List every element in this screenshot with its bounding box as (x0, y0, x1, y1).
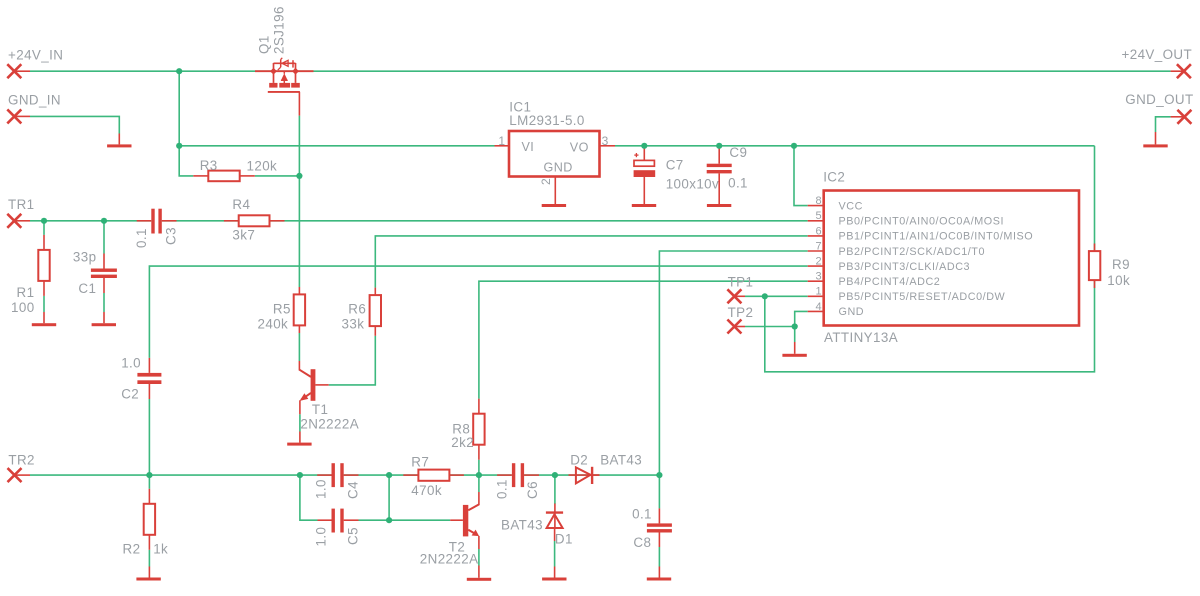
transistor T2 2N2222A npn (420, 492, 479, 578)
wire VCC branch to IC2 pin8 (794, 146, 808, 206)
wire IC2 PB3 row to C2 (149, 266, 807, 358)
wire 5V rail down to R9 top (1094, 146, 1096, 251)
ground IC1 pin2 (542, 204, 566, 207)
svg-text:TP1: TP1 (728, 275, 754, 290)
svg-text:PB3/PCINT3/CLKI/ADC3: PB3/PCINT3/CLKI/ADC3 (839, 261, 971, 273)
diode D1 BAT43 (501, 504, 573, 578)
svg-text:TP2: TP2 (728, 305, 754, 320)
terminal +24V_IN (7, 48, 63, 79)
svg-text:0.1: 0.1 (495, 479, 510, 499)
wire C1 column (103, 221, 105, 254)
svg-text:2: 2 (539, 178, 553, 185)
svg-text:2k2: 2k2 (451, 435, 474, 450)
svg-text:2SJ196: 2SJ196 (271, 6, 286, 54)
wire IC2 GND pin down (795, 311, 808, 342)
ground T1 emitter (287, 443, 311, 446)
capacitor C6 0.1 (495, 463, 541, 499)
svg-text:33k: 33k (342, 317, 365, 332)
svg-text:TR2: TR2 (8, 453, 35, 468)
ground C1 (92, 323, 116, 326)
resistor R5 240k (258, 287, 306, 333)
resistor R3 120k (193, 158, 277, 181)
wire T1 emitter (299, 414, 301, 431)
transistor T1 2N2222A npn (299, 361, 359, 443)
svg-text:120k: 120k (247, 159, 278, 174)
svg-text:C2: C2 (121, 387, 139, 402)
svg-text:Q1: Q1 (256, 35, 271, 54)
svg-text:C9: C9 (729, 145, 747, 160)
svg-text:33p: 33p (73, 250, 97, 265)
svg-text:PB1/PCINT1/AIN1/OC0B/INT0/MISO: PB1/PCINT1/AIN1/OC0B/INT0/MISO (839, 231, 1034, 243)
ground C7 (632, 204, 656, 207)
svg-text:+24V_IN: +24V_IN (8, 48, 63, 63)
pin 5 IC2 PB0/PCINT0/AIN0/OC0A/MOSI (808, 210, 1004, 227)
svg-text:3k7: 3k7 (232, 228, 255, 243)
wire 5V rail IC1 VO to corner (615, 145, 1095, 147)
ground GND_OUT (1143, 132, 1167, 147)
pin 1 IC1 VI (495, 134, 510, 148)
svg-text:6: 6 (815, 225, 822, 237)
svg-text:PB5/PCINT5/RESET/ADC0/DW: PB5/PCINT5/RESET/ADC0/DW (839, 291, 1006, 303)
svg-text:470k: 470k (411, 483, 442, 498)
svg-text:C1: C1 (78, 281, 96, 296)
resistor R6 33k (342, 288, 382, 336)
ground R2 (136, 578, 160, 581)
wire T2 collector (478, 475, 480, 492)
svg-text:0.1: 0.1 (728, 176, 748, 191)
svg-text:LM2931-5.0: LM2931-5.0 (509, 113, 584, 128)
wire gate node column (298, 116, 300, 287)
ground C9 (707, 204, 731, 207)
svg-text:BAT43: BAT43 (501, 517, 543, 532)
wire R3 branch (179, 146, 193, 176)
svg-text:T1: T1 (312, 402, 328, 417)
svg-text:240k: 240k (258, 317, 289, 332)
pin 7 IC2 PB2/PCINT2/SCK/ADC1/T0 (808, 240, 985, 257)
pin 1 IC2 PB5/PCINT5/RESET/ADC0/DW (808, 286, 1006, 303)
svg-text:1k: 1k (153, 542, 168, 557)
wire R5 bottom to T1 collector (298, 333, 300, 361)
terminal TR1 (7, 197, 34, 228)
wire D1 column (554, 475, 556, 504)
svg-text:1: 1 (498, 134, 505, 148)
wire C5 to T2 base (359, 519, 451, 521)
pin 8 IC2 VCC (808, 195, 863, 212)
op-amp IC2 ATTINY13A (823, 170, 1079, 346)
svg-text:0.1: 0.1 (134, 228, 149, 248)
pin 4 IC2 GND (808, 301, 864, 318)
ground C8 (647, 578, 671, 581)
svg-text:C8: C8 (633, 535, 651, 550)
capacitor C3 0.1 (134, 209, 179, 248)
wire R2 column (148, 475, 150, 489)
resistor R1 100 (11, 235, 50, 323)
pin 2 IC2 PB3/PCINT3/CLKI/ADC3 (808, 256, 970, 273)
svg-text:1.0: 1.0 (314, 527, 329, 547)
wire T2 emitter (478, 549, 480, 566)
pin 3 IC2 PB4/PCINT4/ADC2 (808, 271, 941, 288)
ground D1 (542, 578, 566, 581)
terminal TR2 (8, 453, 35, 483)
svg-text:8: 8 (815, 195, 822, 207)
wire +24V top rail (30, 70, 1171, 72)
capacitor C5 1.0 (314, 509, 361, 547)
capacitor C7 100x10v electrolytic (634, 146, 720, 204)
wire C4-C5 link x=389 (388, 475, 390, 520)
svg-text:BAT43: BAT43 (600, 453, 642, 468)
svg-text:C3: C3 (164, 227, 179, 245)
svg-text:PB0/PCINT0/AIN0/OC0A/MOSI: PB0/PCINT0/AIN0/OC0A/MOSI (839, 216, 1005, 228)
ground R1 (32, 323, 56, 326)
wire R3 to gate node (255, 175, 300, 177)
wire R6 bottom to T1 base (329, 336, 376, 385)
capacitor C2 1.0 (121, 356, 161, 402)
transistor Q1 2SJ196 p-mosfet (255, 6, 314, 115)
svg-text:R7: R7 (411, 455, 429, 470)
wire TR2 row (30, 474, 659, 476)
wire TR1 row to IC2 PB0 (30, 220, 808, 222)
wire IC2 PB2 row to D2/C8 node (659, 251, 807, 475)
wire +24V branch down x=179 (178, 71, 180, 146)
capacitor C1 33p (73, 250, 117, 324)
wire rail to IC1 VI (179, 145, 494, 147)
svg-text:GND: GND (544, 160, 573, 174)
terminal +24V_OUT (1122, 47, 1193, 78)
svg-text:R4: R4 (232, 197, 250, 212)
op-amp U-reg IC1 LM2931-5.0 (509, 100, 600, 177)
svg-text:100x10v: 100x10v (666, 177, 719, 192)
resistor R8 2k2 (451, 399, 484, 460)
diode D2 BAT43 (569, 453, 643, 485)
svg-text:GND_OUT: GND_OUT (1125, 92, 1193, 107)
svg-text:IC2: IC2 (823, 170, 845, 185)
wire R9 bottom loop (765, 280, 1095, 372)
svg-text:0.1: 0.1 (632, 507, 652, 522)
svg-text:R5: R5 (273, 302, 291, 317)
capacitor C4 1.0 (314, 463, 361, 499)
capacitor C8 0.1 (632, 507, 672, 578)
wire C2 bottom to TR2 (148, 399, 150, 475)
svg-text:R3: R3 (200, 158, 218, 173)
wire IC2 PB1 row to R6 (375, 236, 807, 288)
svg-text:PB2/PCINT2/SCK/ADC1/T0: PB2/PCINT2/SCK/ADC1/T0 (839, 246, 986, 258)
svg-text:GND: GND (839, 306, 865, 318)
svg-text:VCC: VCC (839, 200, 863, 212)
svg-text:2N2222A: 2N2222A (300, 417, 359, 432)
wire TP2 to gnd junction (745, 326, 795, 328)
svg-text:R9: R9 (1112, 257, 1130, 272)
capacitor C9 0.1 (707, 145, 748, 204)
terminal GND_IN (7, 93, 61, 124)
wire IC2 PB4 row to R8 (479, 281, 808, 399)
svg-text:2N2222A: 2N2222A (420, 552, 479, 567)
svg-text:1.0: 1.0 (314, 479, 329, 499)
svg-text:R6: R6 (348, 302, 366, 317)
svg-text:ATTINY13A: ATTINY13A (824, 330, 898, 345)
wire TP1 to IC2 PB5 (745, 295, 808, 297)
resistor R7 470k (403, 455, 464, 499)
pin 2 IC1 GND (539, 177, 555, 205)
wire GND_IN (30, 116, 119, 133)
svg-text:5: 5 (815, 210, 822, 222)
svg-text:7: 7 (815, 240, 822, 252)
ground T2 emitter (467, 578, 491, 581)
wire R1 column (43, 221, 45, 235)
pin 6 IC2 PB1/PCINT1/AIN1/OC0B/INT0/MISO (808, 225, 1034, 242)
svg-text:VO: VO (570, 140, 589, 154)
svg-text:R1: R1 (17, 285, 35, 300)
svg-text:PB4/PCINT4/ADC2: PB4/PCINT4/ADC2 (839, 276, 941, 288)
resistor R4 3k7 (224, 197, 285, 243)
svg-text:C6: C6 (525, 481, 540, 499)
svg-text:10k: 10k (1107, 273, 1130, 288)
svg-text:GND_IN: GND_IN (8, 93, 61, 108)
ground GND_IN (107, 134, 131, 148)
svg-text:C5: C5 (346, 527, 361, 545)
svg-text:1.0: 1.0 (121, 356, 141, 371)
svg-text:4: 4 (815, 301, 822, 313)
wire C5 branch (300, 475, 318, 520)
svg-text:R2: R2 (123, 542, 141, 557)
svg-text:3: 3 (815, 271, 822, 283)
svg-text:3: 3 (602, 134, 609, 148)
svg-text:TR1: TR1 (8, 197, 35, 212)
svg-text:C7: C7 (666, 158, 684, 173)
wire GND_OUT (1156, 117, 1171, 132)
ground IC2 gnd net (782, 342, 806, 357)
resistor R2 1k (123, 489, 169, 578)
pin 3 IC1 VO (600, 134, 616, 148)
svg-text:2: 2 (815, 256, 822, 268)
wire C8 column (658, 475, 660, 508)
terminal TP2 (727, 305, 753, 334)
svg-text:D2: D2 (570, 453, 588, 468)
wire R8 bottom to TR2 node (478, 460, 480, 475)
terminal TP1 (727, 275, 753, 304)
svg-text:+24V_OUT: +24V_OUT (1122, 47, 1193, 62)
svg-text:VI: VI (522, 140, 535, 154)
svg-text:D1: D1 (555, 532, 573, 547)
terminal GND_OUT (1125, 92, 1193, 124)
resistor R9 10k (1089, 244, 1130, 289)
svg-text:100: 100 (11, 300, 35, 315)
svg-text:C4: C4 (346, 481, 361, 499)
node junction dots (41, 68, 798, 523)
svg-text:1: 1 (815, 286, 822, 298)
